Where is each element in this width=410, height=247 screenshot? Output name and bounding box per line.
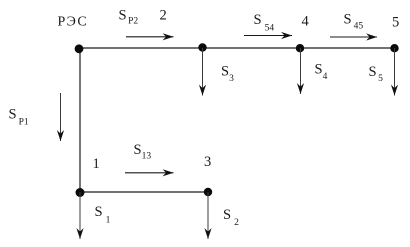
wire: top feeder line from РЭС to node 5 xyxy=(79,47,395,49)
load arrow S4 at node 4 xyxy=(300,48,302,94)
svg-text:S5: S5 xyxy=(369,64,384,84)
load arrow S2 at node 3 xyxy=(207,192,209,239)
svg-text:S13: S13 xyxy=(134,142,152,162)
wire: bottom line from node 1 to node 3 xyxy=(79,191,208,193)
svg-text:S3: S3 xyxy=(221,64,234,85)
load arrow S5 at node 5 xyxy=(394,48,396,96)
svg-text:S1: S1 xyxy=(95,204,111,226)
node 3 xyxy=(204,188,212,196)
node 5 xyxy=(390,44,398,52)
power-flow arrow S_45 (node 4 to node 5) xyxy=(330,36,377,38)
svg-text:SР2: SР2 xyxy=(119,8,139,27)
power-flow arrow S_Р2 (РЭС to node 2) xyxy=(126,36,174,38)
svg-text:1: 1 xyxy=(93,156,100,172)
load arrow S1 at node 1 xyxy=(79,192,81,239)
node 4 xyxy=(296,44,304,52)
svg-text:S4: S4 xyxy=(315,62,328,83)
node 2 xyxy=(198,43,206,51)
svg-text:SР1: SР1 xyxy=(9,107,29,128)
svg-text:S45: S45 xyxy=(344,12,364,32)
load arrow S3 at node 2 xyxy=(202,48,204,96)
svg-text:S2: S2 xyxy=(223,207,239,228)
node РЭС (source busbar junction) xyxy=(75,44,84,53)
svg-text:5: 5 xyxy=(392,15,399,31)
svg-text:3: 3 xyxy=(204,154,211,170)
power-flow arrow S_13 (node 1 to node 3) xyxy=(125,172,174,174)
svg-text:4: 4 xyxy=(302,14,310,30)
svg-text:2: 2 xyxy=(160,8,167,24)
power-flow arrow S_54 (node 2 to node 4) xyxy=(244,35,292,37)
svg-text:РЭС: РЭС xyxy=(58,15,89,30)
svg-text:S54: S54 xyxy=(254,12,275,34)
power-flow arrow S_Р1 (РЭС down to node 1) xyxy=(60,93,62,141)
wire: vertical feeder from РЭС down to node 1 xyxy=(79,48,81,192)
node 1 xyxy=(76,188,85,197)
